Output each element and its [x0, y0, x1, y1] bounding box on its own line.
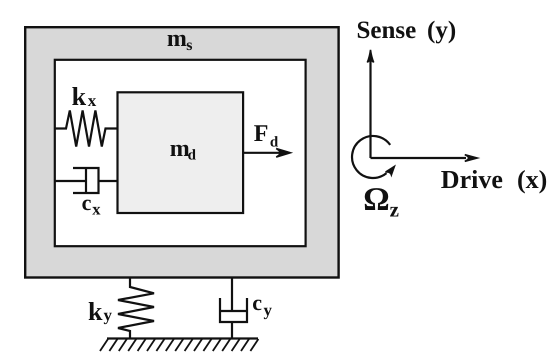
svg-text:Sense: Sense	[357, 17, 417, 44]
svg-text:z: z	[390, 197, 399, 221]
svg-text:Ω: Ω	[363, 182, 389, 218]
svg-text:Drive: Drive	[441, 165, 503, 194]
svg-text:(x): (x)	[517, 165, 547, 194]
svg-text:x: x	[88, 91, 97, 110]
svg-text:c: c	[252, 290, 262, 315]
svg-text:k: k	[72, 82, 87, 111]
svg-text:m: m	[167, 26, 187, 52]
svg-text:y: y	[264, 301, 273, 320]
svg-text:x: x	[92, 200, 101, 219]
svg-text:s: s	[186, 37, 192, 54]
svg-text:d: d	[188, 148, 197, 164]
svg-text:F: F	[254, 121, 269, 147]
svg-text:(y): (y)	[427, 17, 456, 44]
svg-text:k: k	[88, 297, 103, 326]
svg-text:y: y	[104, 305, 113, 324]
